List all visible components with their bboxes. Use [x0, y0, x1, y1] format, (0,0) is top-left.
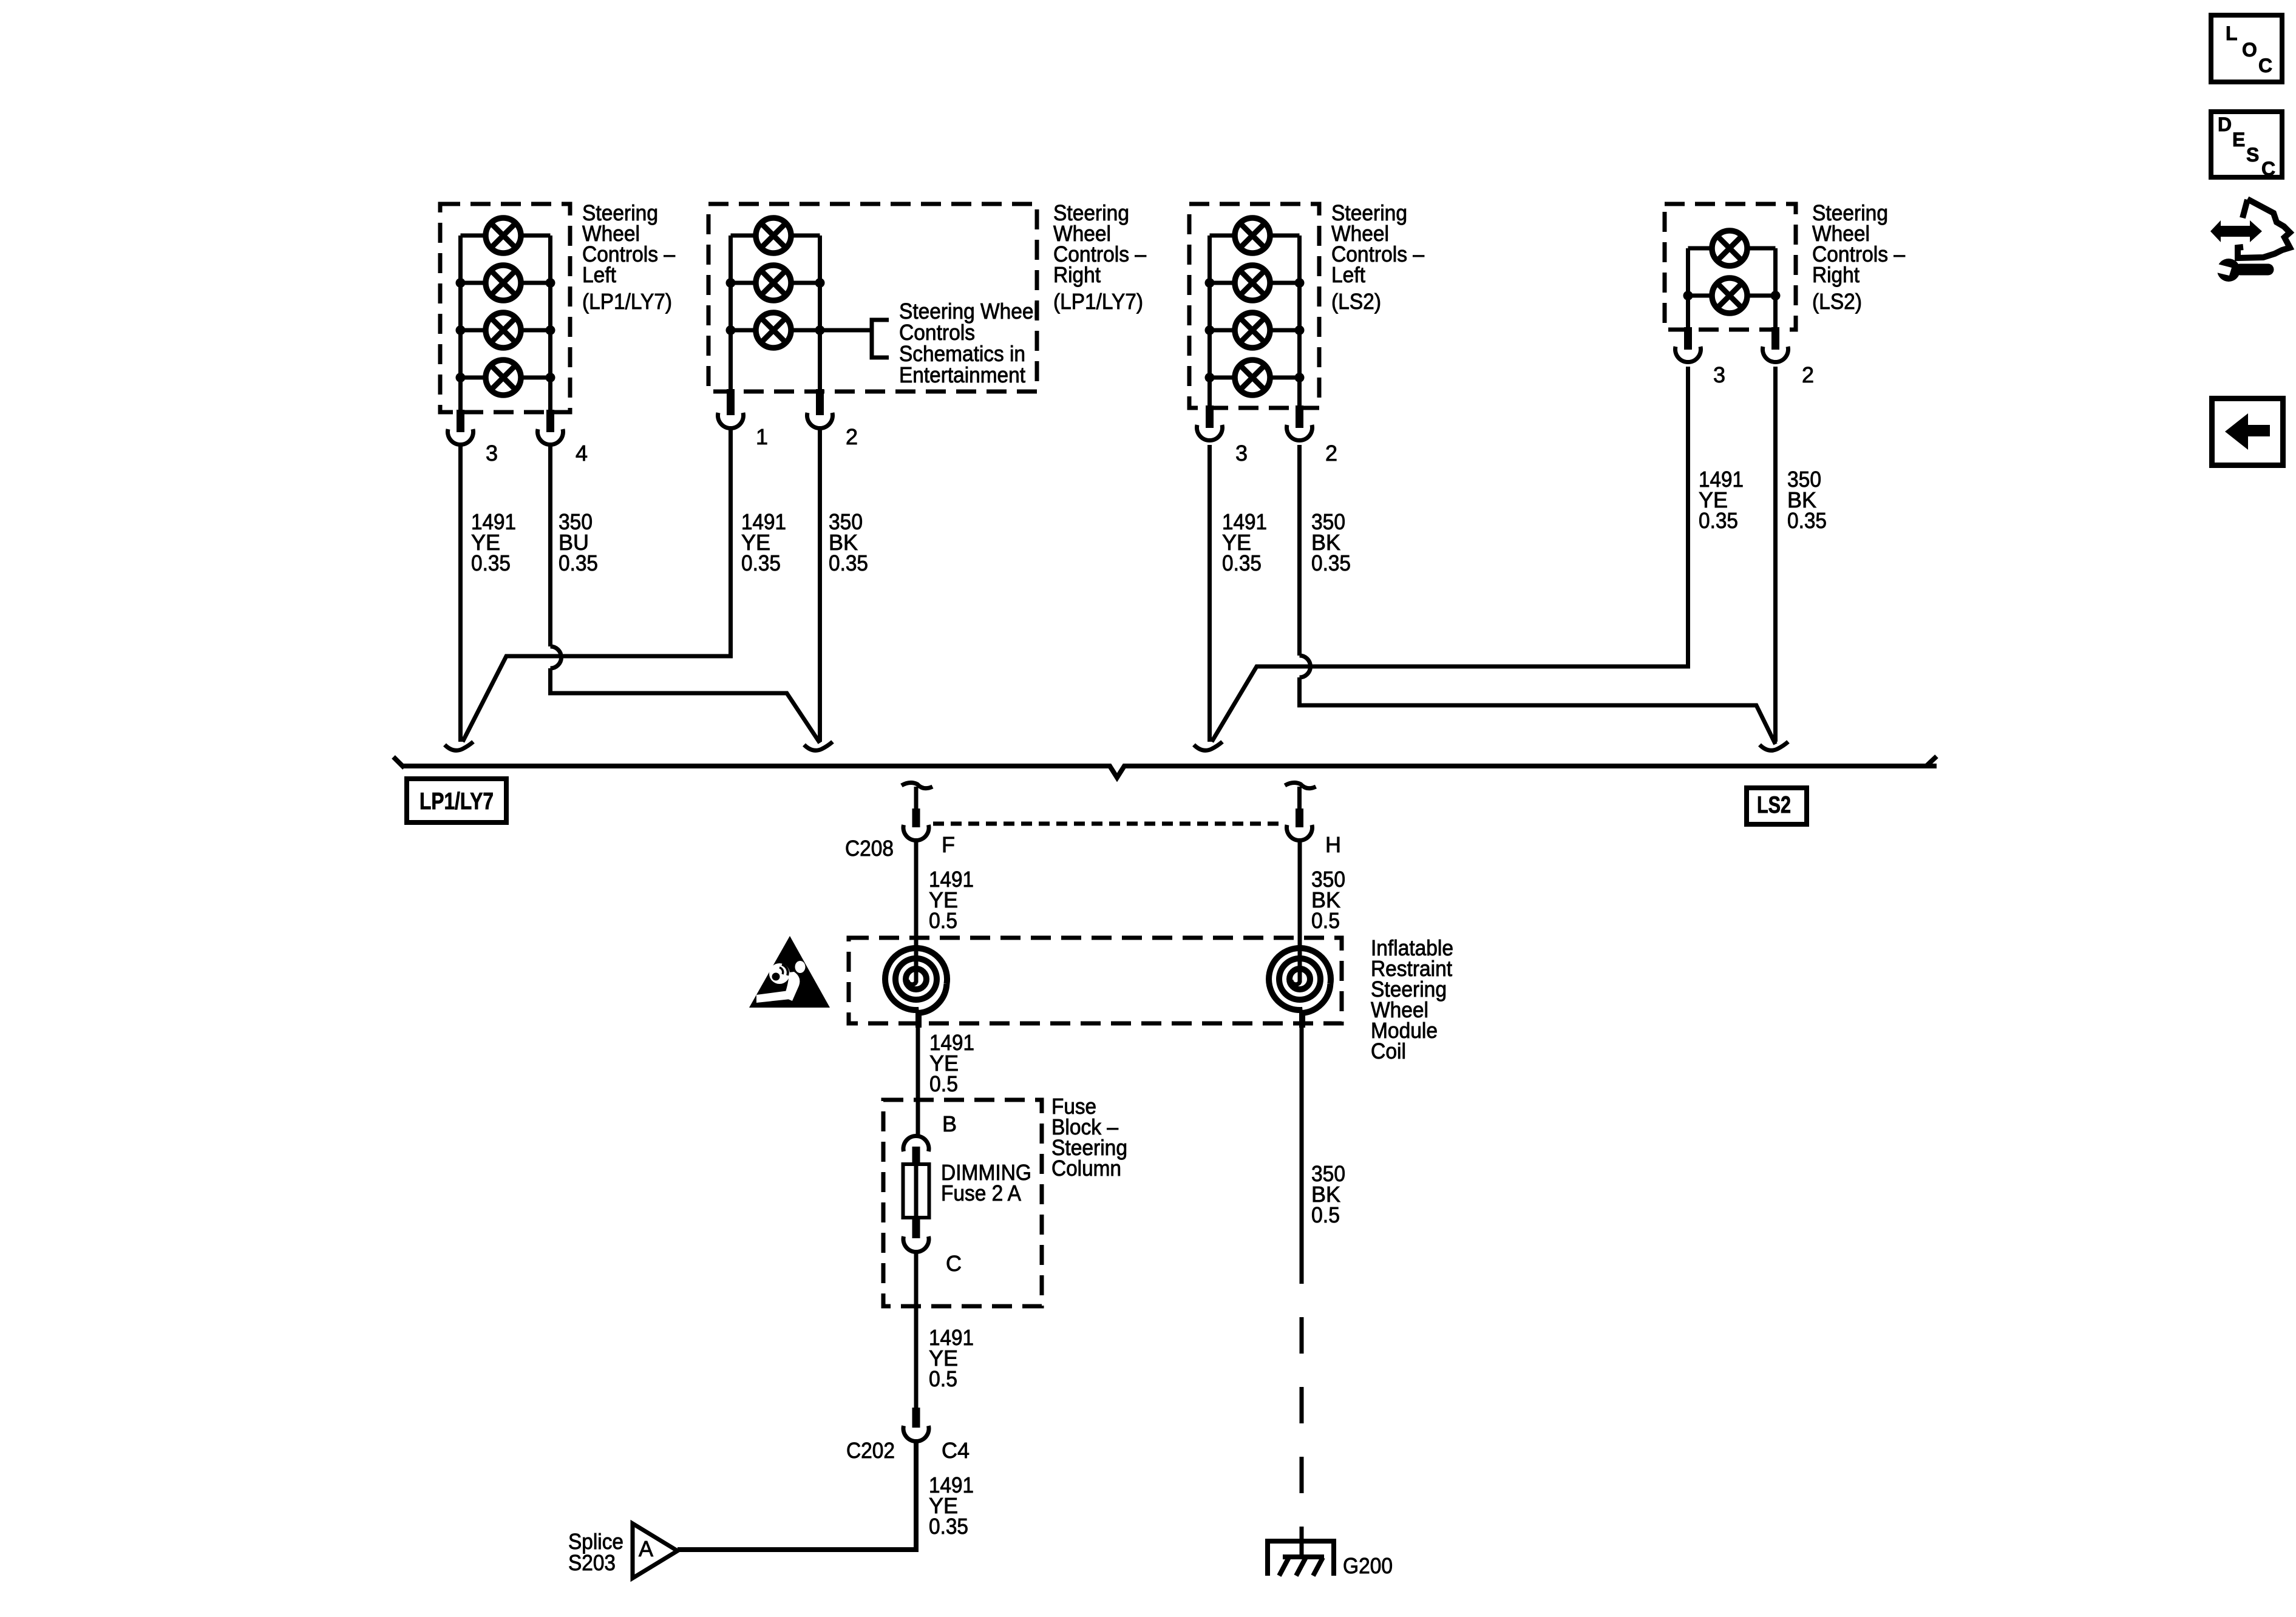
svg-text:LS2: LS2: [1757, 792, 1791, 818]
svg-text:0.35: 0.35: [471, 551, 511, 575]
svg-text:LP1/LY7: LP1/LY7: [419, 788, 494, 815]
svg-text:0.35: 0.35: [559, 551, 598, 575]
svg-text:C: C: [2258, 55, 2272, 76]
svg-text:(LS2): (LS2): [1331, 289, 1381, 314]
svg-text:0.35: 0.35: [1222, 551, 1262, 575]
svg-text:Left: Left: [582, 262, 616, 287]
svg-text:(LP1/LY7): (LP1/LY7): [582, 289, 672, 314]
svg-text:Column: Column: [1051, 1156, 1121, 1181]
svg-text:0.5: 0.5: [1311, 1202, 1340, 1227]
svg-text:0.5: 0.5: [929, 1366, 957, 1391]
svg-text:G200: G200: [1343, 1553, 1393, 1578]
svg-text:C208: C208: [845, 836, 894, 861]
svg-text:H: H: [1325, 832, 1341, 857]
svg-text:Right: Right: [1053, 262, 1101, 287]
svg-text:4: 4: [576, 441, 588, 466]
svg-text:0.35: 0.35: [829, 551, 868, 575]
svg-text:(LP1/LY7): (LP1/LY7): [1053, 289, 1143, 314]
svg-text:2: 2: [846, 424, 858, 449]
svg-text:S203: S203: [568, 1550, 616, 1575]
svg-text:0.5: 0.5: [1311, 908, 1340, 933]
svg-text:O: O: [2242, 39, 2257, 61]
svg-text:L: L: [2226, 22, 2238, 44]
svg-text:2: 2: [1325, 441, 1337, 466]
svg-text:1: 1: [756, 424, 768, 449]
svg-text:Coil: Coil: [1371, 1039, 1406, 1063]
svg-text:0.35: 0.35: [741, 551, 781, 575]
svg-text:0.5: 0.5: [929, 1071, 958, 1096]
svg-text:Fuse 2 A: Fuse 2 A: [941, 1181, 1021, 1205]
svg-text:Entertainment: Entertainment: [899, 362, 1025, 387]
svg-text:0.35: 0.35: [1699, 508, 1738, 533]
svg-text:0.35: 0.35: [1311, 551, 1351, 575]
svg-text:Left: Left: [1331, 262, 1365, 287]
svg-text:0.5: 0.5: [929, 908, 957, 933]
svg-text:D: D: [2218, 114, 2232, 135]
svg-text:Right: Right: [1812, 262, 1860, 287]
svg-text:B: B: [942, 1111, 957, 1136]
svg-text:C: C: [2261, 158, 2275, 180]
svg-text:3: 3: [1235, 441, 1248, 466]
svg-text:3: 3: [1713, 362, 1725, 387]
svg-text:3: 3: [486, 441, 498, 466]
svg-text:0.35: 0.35: [1787, 508, 1827, 533]
svg-text:S: S: [2246, 144, 2259, 166]
svg-text:F: F: [942, 832, 955, 857]
svg-text:E: E: [2232, 129, 2245, 151]
svg-text:0.35: 0.35: [929, 1514, 968, 1539]
svg-text:C: C: [946, 1251, 962, 1276]
svg-text:A: A: [639, 1536, 653, 1561]
svg-text:C4: C4: [942, 1438, 970, 1463]
svg-text:2: 2: [1802, 362, 1814, 387]
svg-text:(LS2): (LS2): [1812, 289, 1862, 314]
svg-text:C202: C202: [846, 1438, 895, 1463]
